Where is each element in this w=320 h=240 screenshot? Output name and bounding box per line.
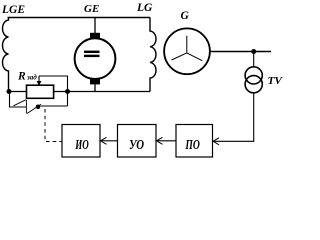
svg-text:LG: LG xyxy=(136,2,153,14)
svg-text:УО: УО xyxy=(129,138,144,153)
svg-text:R: R xyxy=(17,71,26,83)
svg-text:G: G xyxy=(181,10,190,22)
svg-text:ИО: ИО xyxy=(75,138,89,153)
svg-text:ПО: ПО xyxy=(185,138,200,153)
svg-text:GE: GE xyxy=(84,3,99,15)
svg-text:LGE: LGE xyxy=(1,4,25,16)
svg-text:зад: зад xyxy=(26,74,37,82)
svg-text:TV: TV xyxy=(268,75,284,87)
